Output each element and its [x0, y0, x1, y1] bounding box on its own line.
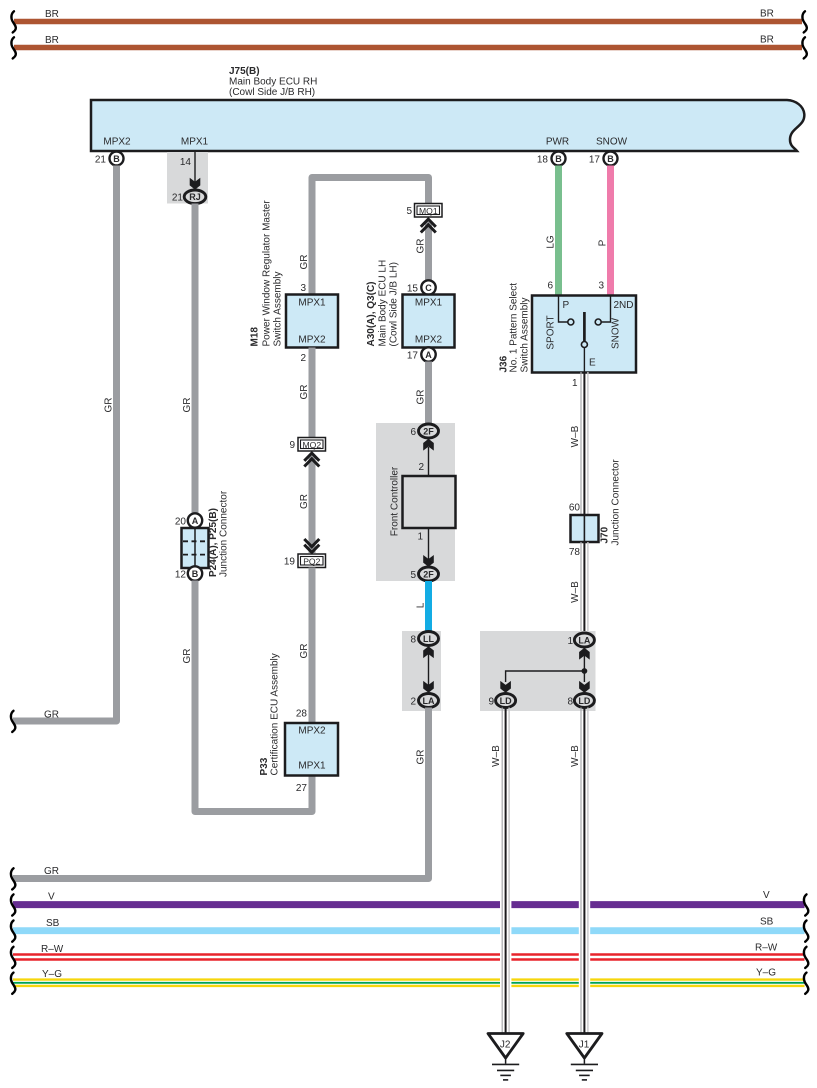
ECU A30(A), Q3(C) Main Body ECU LH [366, 260, 455, 348]
svg-text:BR: BR [760, 35, 774, 46]
svg-text:GR: GR [44, 866, 59, 877]
svg-text:V: V [48, 892, 55, 903]
svg-text:E: E [589, 358, 596, 369]
wire V bus [11, 890, 808, 916]
svg-text:A: A [192, 516, 199, 526]
wire branch to LD 9 [506, 671, 585, 682]
svg-text:MPX2: MPX2 [103, 137, 131, 148]
svg-text:A: A [425, 350, 432, 360]
wire GR from M18 MPX1 pin 3 over to MQ1 [299, 178, 429, 295]
chevron pair below MQ1 [421, 219, 436, 232]
svg-text:17: 17 [407, 351, 419, 362]
svg-text:8: 8 [410, 635, 416, 646]
wire GR from J75 MPX2 pin 21 to left break [11, 166, 117, 733]
svg-text:Switch Assembly: Switch Assembly [273, 271, 284, 346]
svg-text:Power Window Regulator Master: Power Window Regulator Master [262, 200, 273, 347]
svg-text:GR: GR [299, 255, 310, 270]
svg-text:1: 1 [572, 378, 578, 389]
wire W-B from J36 pin 1 to J70 pin 60 [570, 372, 588, 515]
wire GR from PQ2 to P33 MPX2 pin 28 [299, 568, 312, 724]
connector 9 (LD) [488, 694, 515, 708]
svg-text:R–W: R–W [755, 942, 778, 953]
svg-text:(Cowl Side J/B RH): (Cowl Side J/B RH) [229, 87, 315, 98]
svg-text:9: 9 [488, 697, 494, 708]
front controller box [403, 476, 456, 528]
svg-text:P: P [563, 300, 570, 311]
wire LG (green) J75 PWR to J36 pin 6 [546, 166, 559, 296]
svg-text:A30(A), Q3(C): A30(A), Q3(C) [366, 281, 377, 346]
svg-text:MPX1: MPX1 [298, 761, 326, 772]
svg-text:PWR: PWR [546, 137, 569, 148]
svg-text:1: 1 [567, 636, 573, 647]
white halos where W-B wires cross buses [500, 895, 511, 992]
shaded area LL-LA [402, 631, 441, 711]
svg-text:GR: GR [299, 644, 310, 659]
wire R-W bus [11, 942, 808, 968]
chevron pair below MQ2 [304, 453, 319, 466]
svg-text:GR: GR [415, 390, 426, 405]
switch contact SPORT [559, 296, 568, 322]
wire from front controller pin 1 [417, 528, 433, 567]
svg-text:GR: GR [182, 649, 193, 664]
svg-text:MPX2: MPX2 [298, 335, 326, 346]
pin 17 (A) of A30 [407, 347, 436, 361]
wire W-B from 9 (LD) to ground J2 [491, 708, 509, 1035]
svg-text:20: 20 [175, 517, 187, 528]
link LA to LD with branch [500, 648, 589, 693]
ECU M18 Power Window Regulator Master Switch Assembly [250, 200, 339, 348]
connector 9 MQ2 [289, 438, 325, 452]
junction node [582, 668, 588, 674]
svg-text:Y–G: Y–G [42, 969, 62, 980]
wire L (blue) from 2F to LL [415, 581, 428, 632]
link arrows LL to LA [423, 646, 434, 692]
svg-text:5: 5 [410, 570, 416, 581]
svg-text:B: B [607, 154, 614, 164]
svg-text:1: 1 [417, 532, 423, 543]
shaded area around RJ connector [167, 152, 208, 204]
svg-text:W–B: W–B [570, 745, 581, 767]
wire to front controller pin 2 [418, 439, 433, 476]
svg-text:5: 5 [406, 206, 412, 217]
wire GR from RJ to junction connector P24 [182, 204, 195, 514]
svg-text:17: 17 [589, 155, 601, 166]
wire P (pink) J75 SNOW to J36 pin 3 [598, 166, 611, 296]
svg-text:Main Body ECU LH: Main Body ECU LH [378, 260, 389, 347]
connector 5 MQ1 [406, 204, 442, 218]
svg-text:Y–G: Y–G [756, 968, 776, 979]
svg-text:Front Controller: Front Controller [390, 466, 401, 536]
svg-text:GR: GR [44, 710, 59, 721]
svg-text:B: B [555, 154, 562, 164]
svg-text:Junction Connector: Junction Connector [611, 459, 622, 546]
svg-text:9: 9 [289, 440, 295, 451]
switch lever and pole E [583, 312, 586, 342]
ground J1 [567, 1034, 602, 1080]
svg-text:W–B: W–B [491, 745, 502, 767]
svg-text:M18: M18 [250, 327, 261, 347]
svg-text:GR: GR [299, 385, 310, 400]
wire GR from A30 pin 17 to 2F [415, 362, 428, 426]
svg-text:V: V [763, 890, 770, 901]
connector 19 PQ2 [284, 539, 326, 568]
ground J2 [488, 1034, 523, 1080]
svg-text:GR: GR [415, 750, 426, 765]
svg-text:6: 6 [410, 427, 416, 438]
svg-text:MPX2: MPX2 [415, 335, 443, 346]
wire GR from LA down to left break [11, 708, 429, 890]
svg-text:B: B [192, 569, 199, 579]
wire W-B from 8 (LD) to ground J1 [570, 708, 588, 1035]
svg-text:2F: 2F [423, 569, 434, 579]
pin 21 (B) of J75 [95, 152, 124, 166]
svg-text:W–B: W–B [570, 581, 581, 603]
svg-text:GR: GR [182, 398, 193, 413]
svg-text:Main Body ECU RH: Main Body ECU RH [229, 77, 317, 88]
wire GR from P24 pin 12 to P33 MPX1 pin 27 [182, 581, 312, 812]
svg-text:2F: 2F [423, 426, 434, 436]
pin 17 (B) SNOW of J75 [589, 152, 618, 166]
svg-text:60: 60 [569, 503, 581, 514]
wire branch to LD 8 [583, 671, 585, 682]
svg-text:No. 1 Pattern Select: No. 1 Pattern Select [509, 283, 520, 373]
wire GR from M18 MPX2 pin 2 to MQ2 [299, 348, 312, 438]
shaded area front controller [376, 423, 455, 581]
svg-text:15: 15 [407, 284, 419, 295]
svg-text:12: 12 [175, 570, 187, 581]
pin 14 of J75 with arrow [180, 152, 200, 190]
connector 6 (2F) [410, 424, 438, 438]
switch J36 No. 1 Pattern Select Switch Assembly [499, 283, 637, 373]
svg-text:L: L [415, 602, 426, 608]
svg-text:MPX2: MPX2 [298, 726, 326, 737]
svg-text:MPX1: MPX1 [415, 298, 443, 309]
svg-text:2: 2 [300, 353, 306, 364]
svg-text:28: 28 [296, 709, 308, 720]
svg-text:SB: SB [46, 918, 60, 929]
pin 15 (C) of A30 [407, 280, 436, 294]
svg-text:2ND: 2ND [613, 300, 633, 311]
svg-text:PQ2: PQ2 [303, 556, 320, 566]
svg-text:R–W: R–W [41, 944, 64, 955]
wire GR between MQ2 and PQ2 [299, 455, 312, 553]
svg-text:J1: J1 [579, 1040, 590, 1051]
svg-text:LD: LD [500, 696, 512, 706]
connector 1 (LA) [567, 633, 594, 647]
pin 20 (A) of junction connector [175, 513, 202, 527]
svg-text:W–B: W–B [570, 425, 581, 447]
svg-text:SPORT: SPORT [546, 315, 557, 349]
svg-text:GR: GR [299, 494, 310, 509]
svg-text:SNOW: SNOW [611, 317, 622, 349]
svg-text:GR: GR [103, 398, 114, 413]
svg-text:J70: J70 [600, 526, 611, 543]
junction connector J70 [569, 459, 622, 558]
connector 21 (RJ) [172, 190, 206, 204]
wire SB bus [11, 916, 808, 941]
svg-text:(Cowl Side J/B LH): (Cowl Side J/B LH) [389, 262, 400, 346]
pin 18 (B) PWR of J75 [537, 152, 566, 166]
svg-text:BR: BR [45, 35, 59, 46]
svg-text:GR: GR [415, 239, 426, 254]
svg-text:Junction Connector: Junction Connector [219, 490, 230, 577]
svg-text:6: 6 [547, 281, 553, 292]
svg-text:LL: LL [423, 634, 434, 644]
ECU J75(B) box [91, 66, 804, 151]
svg-text:3: 3 [300, 283, 306, 294]
svg-text:21: 21 [172, 193, 184, 204]
svg-text:B: B [113, 154, 120, 164]
svg-text:21: 21 [95, 155, 107, 166]
svg-text:Switch Assembly: Switch Assembly [520, 297, 531, 372]
svg-text:Certification ECU Assembly: Certification ECU Assembly [270, 653, 281, 775]
svg-text:78: 78 [569, 547, 581, 558]
svg-text:LG: LG [546, 235, 557, 249]
wire Y-G bus [11, 968, 808, 994]
svg-text:18: 18 [537, 155, 549, 166]
svg-text:BR: BR [760, 9, 774, 20]
ECU P33 Certification ECU Assembly [259, 653, 338, 775]
wire BR bus 1 [11, 9, 806, 33]
svg-text:2: 2 [410, 697, 416, 708]
svg-text:3: 3 [598, 281, 604, 292]
svg-text:J2: J2 [500, 1040, 511, 1051]
svg-text:P24(A), P25(B): P24(A), P25(B) [208, 508, 219, 577]
connector 8 (LD) [567, 694, 594, 708]
connector 8 (LL) [410, 632, 438, 646]
svg-text:LA: LA [578, 635, 590, 645]
svg-text:BR: BR [45, 9, 59, 20]
svg-text:RJ: RJ [189, 192, 201, 202]
svg-text:2: 2 [418, 462, 424, 473]
svg-text:MPX1: MPX1 [181, 137, 209, 148]
svg-text:SNOW: SNOW [596, 137, 628, 148]
svg-text:SB: SB [760, 916, 774, 927]
svg-text:LA: LA [423, 696, 435, 706]
svg-text:P33: P33 [259, 757, 270, 775]
svg-text:J75(B): J75(B) [229, 66, 260, 77]
wire GR from MQ1 to A30 pin 15 [415, 221, 428, 280]
connector 5 (2F) [410, 567, 438, 581]
svg-text:C: C [425, 283, 432, 293]
junction connector P24(A), P25(B) [182, 490, 230, 577]
svg-text:MPX1: MPX1 [298, 298, 326, 309]
svg-text:MQ1: MQ1 [419, 206, 438, 216]
connector 2 (LA) [410, 694, 438, 708]
pin 12 (B) of junction connector [175, 566, 202, 580]
wire BR bus 2 [11, 35, 806, 59]
shaded area LA-LD [480, 631, 596, 711]
svg-text:LD: LD [578, 696, 590, 706]
svg-text:19: 19 [284, 557, 296, 568]
wire W-B from J70 pin 78 to 1 (LA) [570, 542, 588, 633]
svg-text:MQ2: MQ2 [302, 440, 321, 450]
svg-text:14: 14 [180, 157, 192, 168]
svg-text:27: 27 [296, 783, 308, 794]
switch contact SNOW [602, 296, 611, 322]
svg-text:8: 8 [567, 697, 573, 708]
svg-text:P: P [598, 239, 609, 246]
